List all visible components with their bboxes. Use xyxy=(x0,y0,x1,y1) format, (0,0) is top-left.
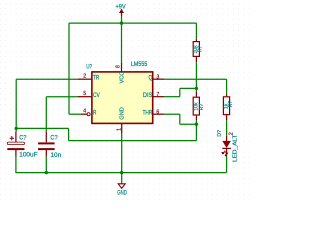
svg-text:R?: R? xyxy=(228,101,234,108)
svg-text:TR: TR xyxy=(93,75,100,82)
svg-text:DIS: DIS xyxy=(143,92,152,99)
svg-text:GND: GND xyxy=(117,190,127,197)
svg-text:C?: C? xyxy=(19,134,27,141)
svg-text:10n: 10n xyxy=(50,152,61,159)
svg-text:6: 6 xyxy=(156,109,159,115)
svg-text:R?: R? xyxy=(197,46,203,53)
svg-text:Q: Q xyxy=(149,75,153,82)
svg-text:C?: C? xyxy=(50,134,58,141)
svg-text:LED_ALT: LED_ALT xyxy=(233,133,239,162)
svg-text:LM555: LM555 xyxy=(131,62,148,68)
svg-text:R?: R? xyxy=(199,104,205,111)
svg-text:GND: GND xyxy=(119,107,125,119)
svg-text:3: 3 xyxy=(156,74,159,80)
svg-text:4: 4 xyxy=(83,108,86,114)
svg-text:+9V: +9V xyxy=(116,3,127,10)
svg-text:100uF: 100uF xyxy=(19,152,37,159)
svg-text:D?: D? xyxy=(217,130,223,137)
svg-text:CV: CV xyxy=(93,92,100,99)
svg-text:1: 1 xyxy=(117,128,123,131)
svg-text:U?: U? xyxy=(86,65,92,71)
svg-text:R: R xyxy=(93,110,97,117)
svg-text:7: 7 xyxy=(156,92,159,98)
svg-text:1: 1 xyxy=(221,151,227,154)
svg-text:VCC: VCC xyxy=(119,72,125,84)
svg-text:THR: THR xyxy=(143,110,153,117)
svg-text:5: 5 xyxy=(83,91,86,97)
svg-text:8: 8 xyxy=(116,65,122,68)
svg-text:2: 2 xyxy=(83,73,86,79)
